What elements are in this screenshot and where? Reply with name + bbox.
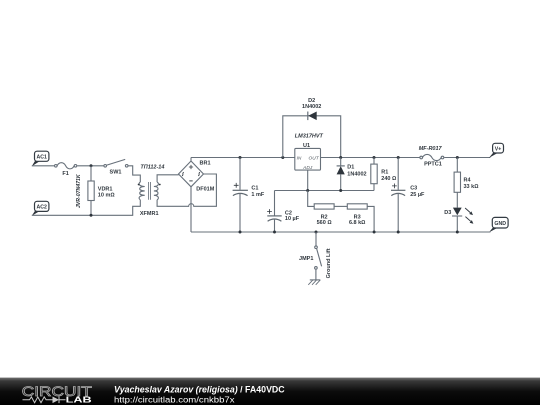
svg-text:AC1: AC1 — [37, 155, 47, 161]
op-amp U1 LM317 regulator — [295, 133, 324, 171]
junction D3 bottom — [456, 231, 459, 234]
wire XFMR1 secondary top to BR1 — [157, 175, 179, 182]
svg-text:PPTC1: PPTC1 — [424, 162, 442, 168]
junction C3 top — [397, 156, 400, 159]
wire ground rail — [191, 231, 490, 233]
fuse PPTC1 — [419, 146, 444, 168]
capacitor C2 — [267, 191, 300, 233]
capacitor C3 — [391, 158, 425, 233]
wire SW1 to XFMR1 primary top — [128, 166, 140, 182]
node AC1 flag — [32, 151, 49, 166]
junction D2 left — [281, 156, 284, 159]
node GND flag — [489, 217, 508, 232]
varistor VDR1 — [76, 166, 115, 216]
svg-text:AC2: AC2 — [37, 205, 47, 211]
junction at VDR1 top — [90, 164, 93, 167]
junction R1 top — [373, 156, 376, 159]
svg-text:240 Ω: 240 Ω — [381, 176, 396, 182]
svg-text:1N4002: 1N4002 — [302, 104, 321, 110]
junction C1 bottom — [239, 231, 242, 234]
svg-text:OUT: OUT — [309, 156, 320, 162]
resistor R3 — [347, 204, 374, 232]
wire AC1 to F1 — [32, 165, 54, 167]
junction C1 top — [239, 156, 242, 159]
diode D2 loop wire — [283, 116, 341, 158]
svg-text:JMP1: JMP1 — [299, 256, 313, 262]
svg-text:C1: C1 — [251, 185, 258, 191]
svg-text:R4: R4 — [464, 177, 472, 183]
junction ADJ pin — [306, 189, 309, 192]
svg-text:DF01M: DF01M — [196, 187, 214, 193]
svg-text:SW1: SW1 — [110, 169, 122, 175]
svg-text:D3: D3 — [444, 210, 451, 216]
bridge rectifier BR1 — [179, 158, 215, 193]
svg-text:LM317HVT: LM317HVT — [295, 133, 324, 139]
wire AC2 to XFMR1 primary bottom — [32, 200, 141, 216]
CircuitLab logo wire-resistor-diode — [23, 397, 66, 404]
node V+ flag — [489, 143, 504, 158]
svg-text:25 µF: 25 µF — [410, 192, 425, 198]
svg-text:BR1: BR1 — [200, 160, 211, 166]
svg-text:F1: F1 — [62, 171, 68, 177]
svg-text:D2: D2 — [308, 98, 315, 104]
junction C3 bottom — [397, 231, 400, 234]
wire F1 to SW1 — [77, 165, 103, 167]
svg-text:LAB: LAB — [66, 396, 92, 405]
footer bar — [0, 378, 540, 405]
svg-text:Ground Lift: Ground Lift — [326, 248, 332, 278]
svg-text:JVR-07N471K: JVR-07N471K — [76, 173, 82, 208]
junction at VDR1 bottom — [90, 214, 93, 217]
diode D1 — [337, 158, 367, 191]
wire BR1 bottom to ground rail — [190, 187, 192, 232]
svg-text:C3: C3 — [410, 185, 417, 191]
svg-text:D1: D1 — [347, 165, 354, 171]
LED D3 — [444, 192, 473, 232]
resistor R1 — [371, 158, 396, 191]
svg-text:VDR1: VDR1 — [98, 186, 113, 192]
svg-text:1 mF: 1 mF — [251, 192, 264, 198]
junction JMP1 top — [315, 231, 318, 234]
svg-text:IN: IN — [297, 156, 302, 162]
junction R4 top — [456, 156, 459, 159]
switch SW1 — [104, 159, 128, 175]
wire top rail BR1 to U1 IN — [191, 157, 295, 159]
svg-text:10 µF: 10 µF — [285, 216, 300, 222]
junction C2 bottom — [273, 231, 276, 234]
node AC2 flag — [32, 201, 49, 215]
fuse F1 — [55, 163, 77, 177]
ground chassis symbol — [308, 280, 320, 285]
svg-text:ТП112-14: ТП112-14 — [140, 165, 164, 171]
transformer XFMR1 — [138, 165, 165, 218]
svg-text:6.8 kΩ: 6.8 kΩ — [349, 220, 365, 226]
svg-text:http://circuitlab.com/cnkbb7x: http://circuitlab.com/cnkbb7x — [114, 394, 235, 404]
wire PPTC1 to V+ — [444, 157, 490, 159]
wire U1 OUT rail to PPTC1 — [321, 157, 420, 159]
svg-text:10 mΩ: 10 mΩ — [98, 193, 115, 199]
capacitor C1 — [233, 158, 265, 233]
junction D1 bottom — [339, 189, 342, 192]
wire XFMR1 secondary bottom to BR1 right (with hop) — [157, 174, 216, 206]
junction R3 bottom — [373, 231, 376, 234]
jumper JMP1 — [299, 232, 332, 280]
resistor R4 — [454, 158, 478, 193]
svg-text:GND: GND — [494, 221, 506, 227]
svg-text:560 Ω: 560 Ω — [317, 220, 332, 226]
svg-text:R1: R1 — [381, 169, 388, 175]
svg-text:XFMR1: XFMR1 — [140, 211, 159, 217]
svg-text:Vyacheslav Azarov (religiosa): Vyacheslav Azarov (religiosa) / FA40VDC — [114, 384, 285, 394]
diode D2 — [302, 98, 321, 120]
wire R2 to R3 — [334, 205, 347, 207]
wire ADJ net — [275, 190, 375, 192]
resistor R2 — [308, 191, 334, 227]
svg-text:MF-R017: MF-R017 — [419, 146, 443, 152]
ADJ pin wire — [307, 170, 309, 190]
svg-text:1N4002: 1N4002 — [347, 171, 366, 177]
junction D2/D1 — [339, 156, 342, 159]
svg-text:33 kΩ: 33 kΩ — [464, 184, 479, 190]
svg-text:V+: V+ — [495, 147, 502, 153]
